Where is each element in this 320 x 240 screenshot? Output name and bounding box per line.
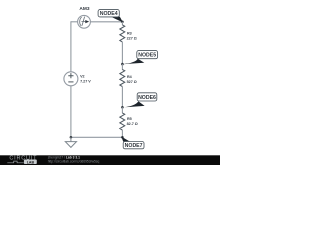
wire right column from NODE6 junction down to R5 top lead — [121, 107, 123, 113]
svg-text:527 Ω: 527 Ω — [127, 80, 137, 84]
svg-text:82.7 Ω: 82.7 Ω — [127, 122, 138, 126]
ammeter AM3 — [78, 15, 91, 28]
svg-text:NODE7: NODE7 — [125, 143, 143, 149]
node NODE7 flag — [121, 136, 144, 149]
wire right column from R3 bottom lead to NODE5 junction — [121, 42, 123, 64]
wire left vertical from top corner down to V2 positive terminal — [70, 21, 72, 72]
resistor R5 — [120, 113, 125, 130]
node NODE5 flag — [121, 51, 158, 66]
node NODE6 flag — [121, 93, 157, 109]
svg-text:http://circuitlab.com/c/dd6953: http://circuitlab.com/c/dd6953rw5sq — [48, 160, 100, 164]
wire right column from NODE5 junction down to R4 top lead — [121, 64, 123, 69]
voltage source V2 — [64, 72, 78, 86]
wire right column from NODE4 down to R3 top lead — [121, 22, 123, 25]
svg-text:R5: R5 — [127, 117, 132, 121]
svg-text:NODE4: NODE4 — [100, 11, 118, 17]
svg-text:R3: R3 — [127, 31, 132, 35]
wire bottom horizontal from ground junction to NODE7 — [71, 136, 123, 138]
wire right column from R4 bottom lead to NODE6 junction — [121, 86, 123, 107]
svg-text:227 Ω: 227 Ω — [127, 36, 137, 40]
node NODE4 flag — [98, 10, 124, 24]
CircuitLab logo LAB box — [24, 160, 37, 165]
wire right column from R5 bottom lead to bottom wire — [121, 130, 123, 137]
svg-text:AM3: AM3 — [79, 6, 89, 12]
wire top horizontal from ammeter AM3 right terminal to NODE4 junction — [90, 21, 122, 23]
svg-text:LAB: LAB — [27, 160, 35, 164]
resistor R3 — [120, 25, 125, 42]
svg-text:NODE6: NODE6 — [138, 95, 156, 101]
wire top-left horizontal from corner to ammeter AM3 left terminal — [71, 21, 78, 23]
resistor R4 — [120, 69, 125, 86]
wire left vertical from V2 negative terminal down to ground junction — [70, 86, 72, 138]
watermark bar — [0, 155, 220, 165]
junction dot at ground node — [70, 136, 73, 139]
svg-text:7.27 V: 7.27 V — [80, 79, 91, 83]
svg-text:NODE5: NODE5 — [138, 53, 156, 59]
CircuitLab logo waveform glyph — [7, 161, 23, 163]
svg-text:V2: V2 — [80, 74, 85, 78]
ground — [65, 137, 76, 147]
